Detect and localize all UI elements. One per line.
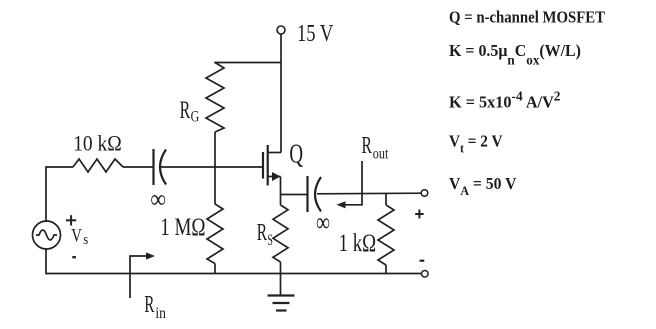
capacitor C1 (input coupling) flat plate bbox=[152, 149, 154, 185]
svg-text:R: R bbox=[180, 97, 191, 124]
capacitor C2 curved plate bbox=[315, 177, 321, 212]
wire: input left vertical bbox=[45, 166, 47, 221]
svg-text:R: R bbox=[257, 219, 268, 246]
transistor Q channel bar bbox=[267, 145, 269, 186]
svg-text:K = 5x10-4 A/V2: K = 5x10-4 A/V2 bbox=[449, 90, 561, 112]
wire: RS bottom lead bbox=[280, 262, 282, 274]
resistor 1k load bbox=[378, 205, 394, 265]
wire: 1k top lead bbox=[385, 193, 387, 205]
svg-text:R: R bbox=[144, 292, 154, 318]
output terminal top bbox=[421, 190, 428, 197]
resistor RG bbox=[206, 63, 224, 133]
svg-text:V: V bbox=[71, 225, 82, 246]
svg-text:Vt = 2 V: Vt = 2 V bbox=[449, 132, 503, 156]
transistor Q source stub with arrow bbox=[268, 176, 281, 178]
Rin measurement arrow bbox=[130, 256, 149, 298]
transistor Q gate bar bbox=[262, 152, 264, 179]
svg-text:1 kΩ: 1 kΩ bbox=[339, 229, 377, 257]
Rout measurement arrow bbox=[343, 161, 362, 205]
resistor RS bbox=[273, 205, 288, 262]
wire: 10k left lead bbox=[46, 166, 73, 168]
transistor Q drain stub bbox=[268, 152, 281, 154]
plus label of output bbox=[415, 210, 423, 219]
svg-text:Q = n-channel MOSFET: Q = n-channel MOSFET bbox=[449, 8, 605, 27]
svg-text:15 V: 15 V bbox=[297, 21, 334, 47]
wire: 1k bottom lead bbox=[385, 265, 387, 274]
svg-text:10 kΩ: 10 kΩ bbox=[73, 130, 122, 155]
svg-text:out: out bbox=[373, 145, 389, 162]
resistor 1M bbox=[207, 204, 223, 264]
wire: drain rail vertical from 15V terminal bbox=[280, 34, 282, 153]
wire: gate wire from input cap to gate bbox=[161, 166, 263, 168]
wire: 1M top lead bbox=[214, 167, 216, 204]
minus label of output bbox=[420, 260, 425, 262]
capacitor C2 (output coupling) flat plate bbox=[306, 176, 308, 212]
svg-text:G: G bbox=[191, 108, 200, 125]
ground bbox=[268, 274, 295, 311]
svg-text:K = 0.5μnCox(W/L): K = 0.5μnCox(W/L) bbox=[449, 41, 581, 69]
Rin label bbox=[144, 292, 166, 322]
wire: top horizontal to RG bbox=[214, 62, 281, 64]
svg-text:1 MΩ: 1 MΩ bbox=[160, 214, 205, 241]
vs label bbox=[71, 225, 88, 248]
resistor 10k bbox=[73, 159, 123, 172]
svg-text:VA = 50 V: VA = 50 V bbox=[449, 174, 517, 198]
wire: vs bottom lead bbox=[45, 249, 47, 274]
RG value label bbox=[180, 97, 200, 125]
output terminal bottom bbox=[422, 271, 429, 278]
wire: bottom ground rail bbox=[46, 273, 422, 275]
svg-text:∞: ∞ bbox=[150, 184, 166, 213]
svg-text:Q: Q bbox=[289, 139, 303, 169]
wire: 10k right lead to cap bbox=[123, 166, 153, 168]
svg-text:in: in bbox=[155, 305, 166, 322]
capacitor C1 curved plate bbox=[160, 150, 166, 185]
source vs sine wave bbox=[36, 230, 57, 240]
15V supply terminal bbox=[277, 26, 285, 34]
wire: source vertical down bbox=[280, 177, 282, 206]
wire: RG bottom lead to gate node bbox=[214, 132, 216, 167]
wire: output wire to terminal bbox=[317, 192, 422, 195]
wire: 1M bottom lead bbox=[214, 264, 216, 274]
RS label bbox=[257, 219, 273, 249]
source vs circle bbox=[33, 221, 61, 249]
minus label of vs bbox=[72, 256, 76, 258]
svg-text:∞: ∞ bbox=[316, 207, 330, 237]
svg-text:R: R bbox=[362, 132, 373, 159]
svg-text:S: S bbox=[267, 232, 273, 249]
wire: source node horizontal to output cap bbox=[281, 194, 308, 196]
plus label of vs bbox=[66, 215, 76, 225]
svg-text:s: s bbox=[83, 232, 88, 248]
Rout label bbox=[362, 132, 389, 163]
